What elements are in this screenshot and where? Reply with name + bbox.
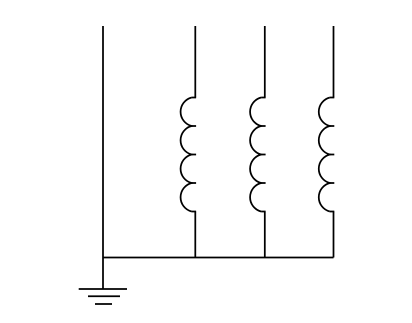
wire: bottom lead of L1: [194, 212, 196, 258]
wire: left vertical bus from top to ground: [102, 26, 104, 289]
inductor L1: [181, 98, 197, 212]
ground: [79, 289, 127, 304]
wire: bottom horizontal bus: [103, 257, 334, 259]
wire: bottom lead of L2: [264, 212, 266, 258]
wire: bottom lead of L3: [333, 212, 335, 258]
wire: top lead of L3: [333, 26, 335, 98]
wire: top lead of L2: [264, 26, 266, 98]
inductor L2: [250, 98, 266, 212]
wire: top lead of L1: [194, 26, 196, 98]
inductor L3: [319, 98, 335, 212]
